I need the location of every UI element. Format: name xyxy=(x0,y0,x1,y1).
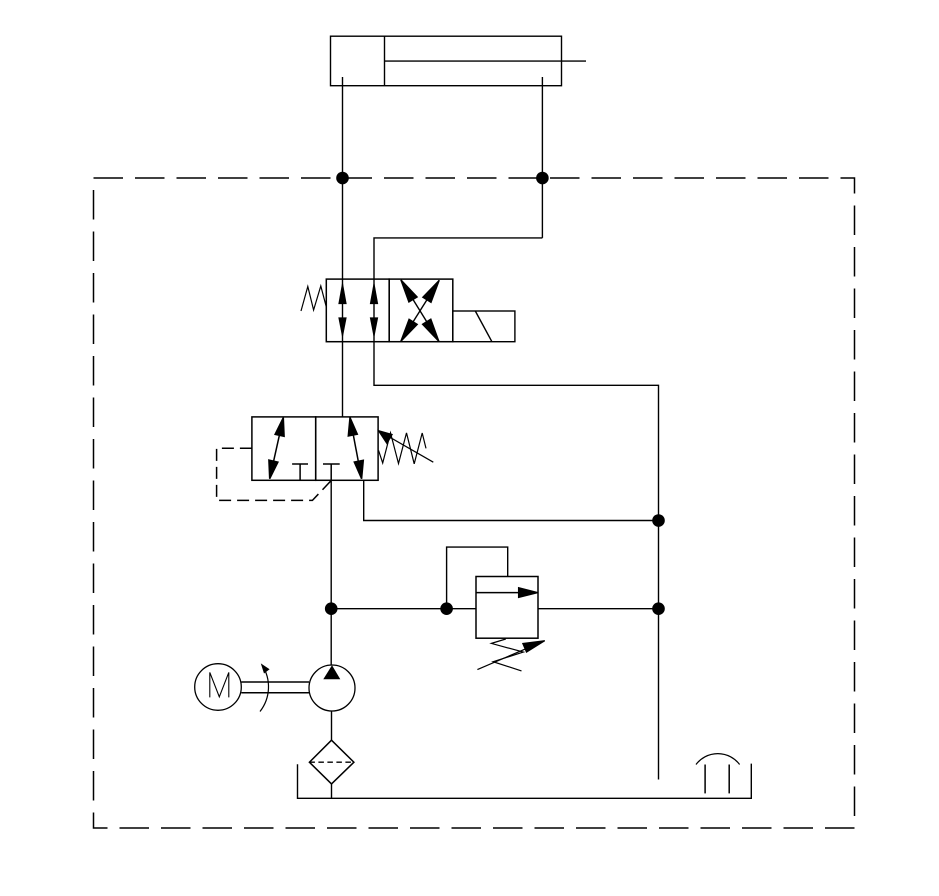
valve V1 crossed flow paths (right position) xyxy=(401,280,439,341)
wire pump pressure line (horizontal) xyxy=(331,608,476,610)
wire pump suction down to filter xyxy=(331,711,333,740)
tank T1 xyxy=(298,764,752,799)
valve V2 right position blocked port T xyxy=(323,464,340,480)
valve V2 left position flow arrow xyxy=(269,418,284,479)
cylinder C1 xyxy=(331,36,587,85)
valve V1 flow arrows (left position) xyxy=(338,281,378,339)
relief valve RV1 pilot line xyxy=(447,547,508,609)
wire cylinder left port to valve V1 port A xyxy=(342,77,344,279)
relief valve RV1 body xyxy=(476,577,538,639)
valve V2 adjustment arrow over spring xyxy=(379,431,434,463)
valve V1 solenoid coil xyxy=(453,311,515,342)
valve V2 left position blocked port T xyxy=(292,464,308,480)
motor shaft (double line) xyxy=(241,682,309,693)
wire V1 port P down to valve V2 xyxy=(342,342,344,417)
valve V2 right position flow arrow xyxy=(348,418,363,479)
enclosure boundary (dashed power-unit box) xyxy=(94,178,855,828)
node B (right cylinder line crosses enclosure) xyxy=(536,172,549,185)
relief valve RV1 flow arrow xyxy=(476,588,537,597)
pump P1 xyxy=(309,665,355,711)
rotation direction arc xyxy=(260,663,270,711)
motor M1 xyxy=(195,664,242,711)
unloading valve V2 body (3/2 pilot operated) xyxy=(252,417,378,480)
valve V2 spring (right) xyxy=(379,433,427,464)
relief valve RV1 adjustment arrow xyxy=(477,641,544,670)
filter F1 xyxy=(309,740,354,784)
wire return column down to tank xyxy=(658,521,660,780)
relief valve RV1 spring xyxy=(491,639,523,671)
valve V1 return spring (left) xyxy=(301,286,326,311)
wire V2 pump port down xyxy=(330,480,332,608)
valve V1 parallel flow path lines (left position) xyxy=(343,279,375,342)
wire V2 outlet down then right to column xyxy=(364,480,659,520)
wire pressure node down to pump inlet...outlet up xyxy=(330,609,332,665)
valve V2 pilot line (dashed) xyxy=(217,448,332,500)
node F (return column) xyxy=(652,602,665,615)
directional valve V1 body (4/2 solenoid valve) xyxy=(326,279,453,342)
node A (left cylinder line crosses enclosure) xyxy=(336,172,349,185)
wire cylinder right port down xyxy=(541,77,543,238)
wire filter to tank xyxy=(331,784,333,798)
wire horizontal to valve V1 port B xyxy=(374,238,542,279)
breather (vent) on tank xyxy=(696,754,740,794)
wire relief outlet to return column xyxy=(538,608,659,610)
node E (relief pilot tap) xyxy=(440,602,453,615)
wire V1 port T to right column xyxy=(374,342,659,521)
node D (pump column) xyxy=(325,602,338,615)
node C (return column junction) xyxy=(652,514,665,527)
